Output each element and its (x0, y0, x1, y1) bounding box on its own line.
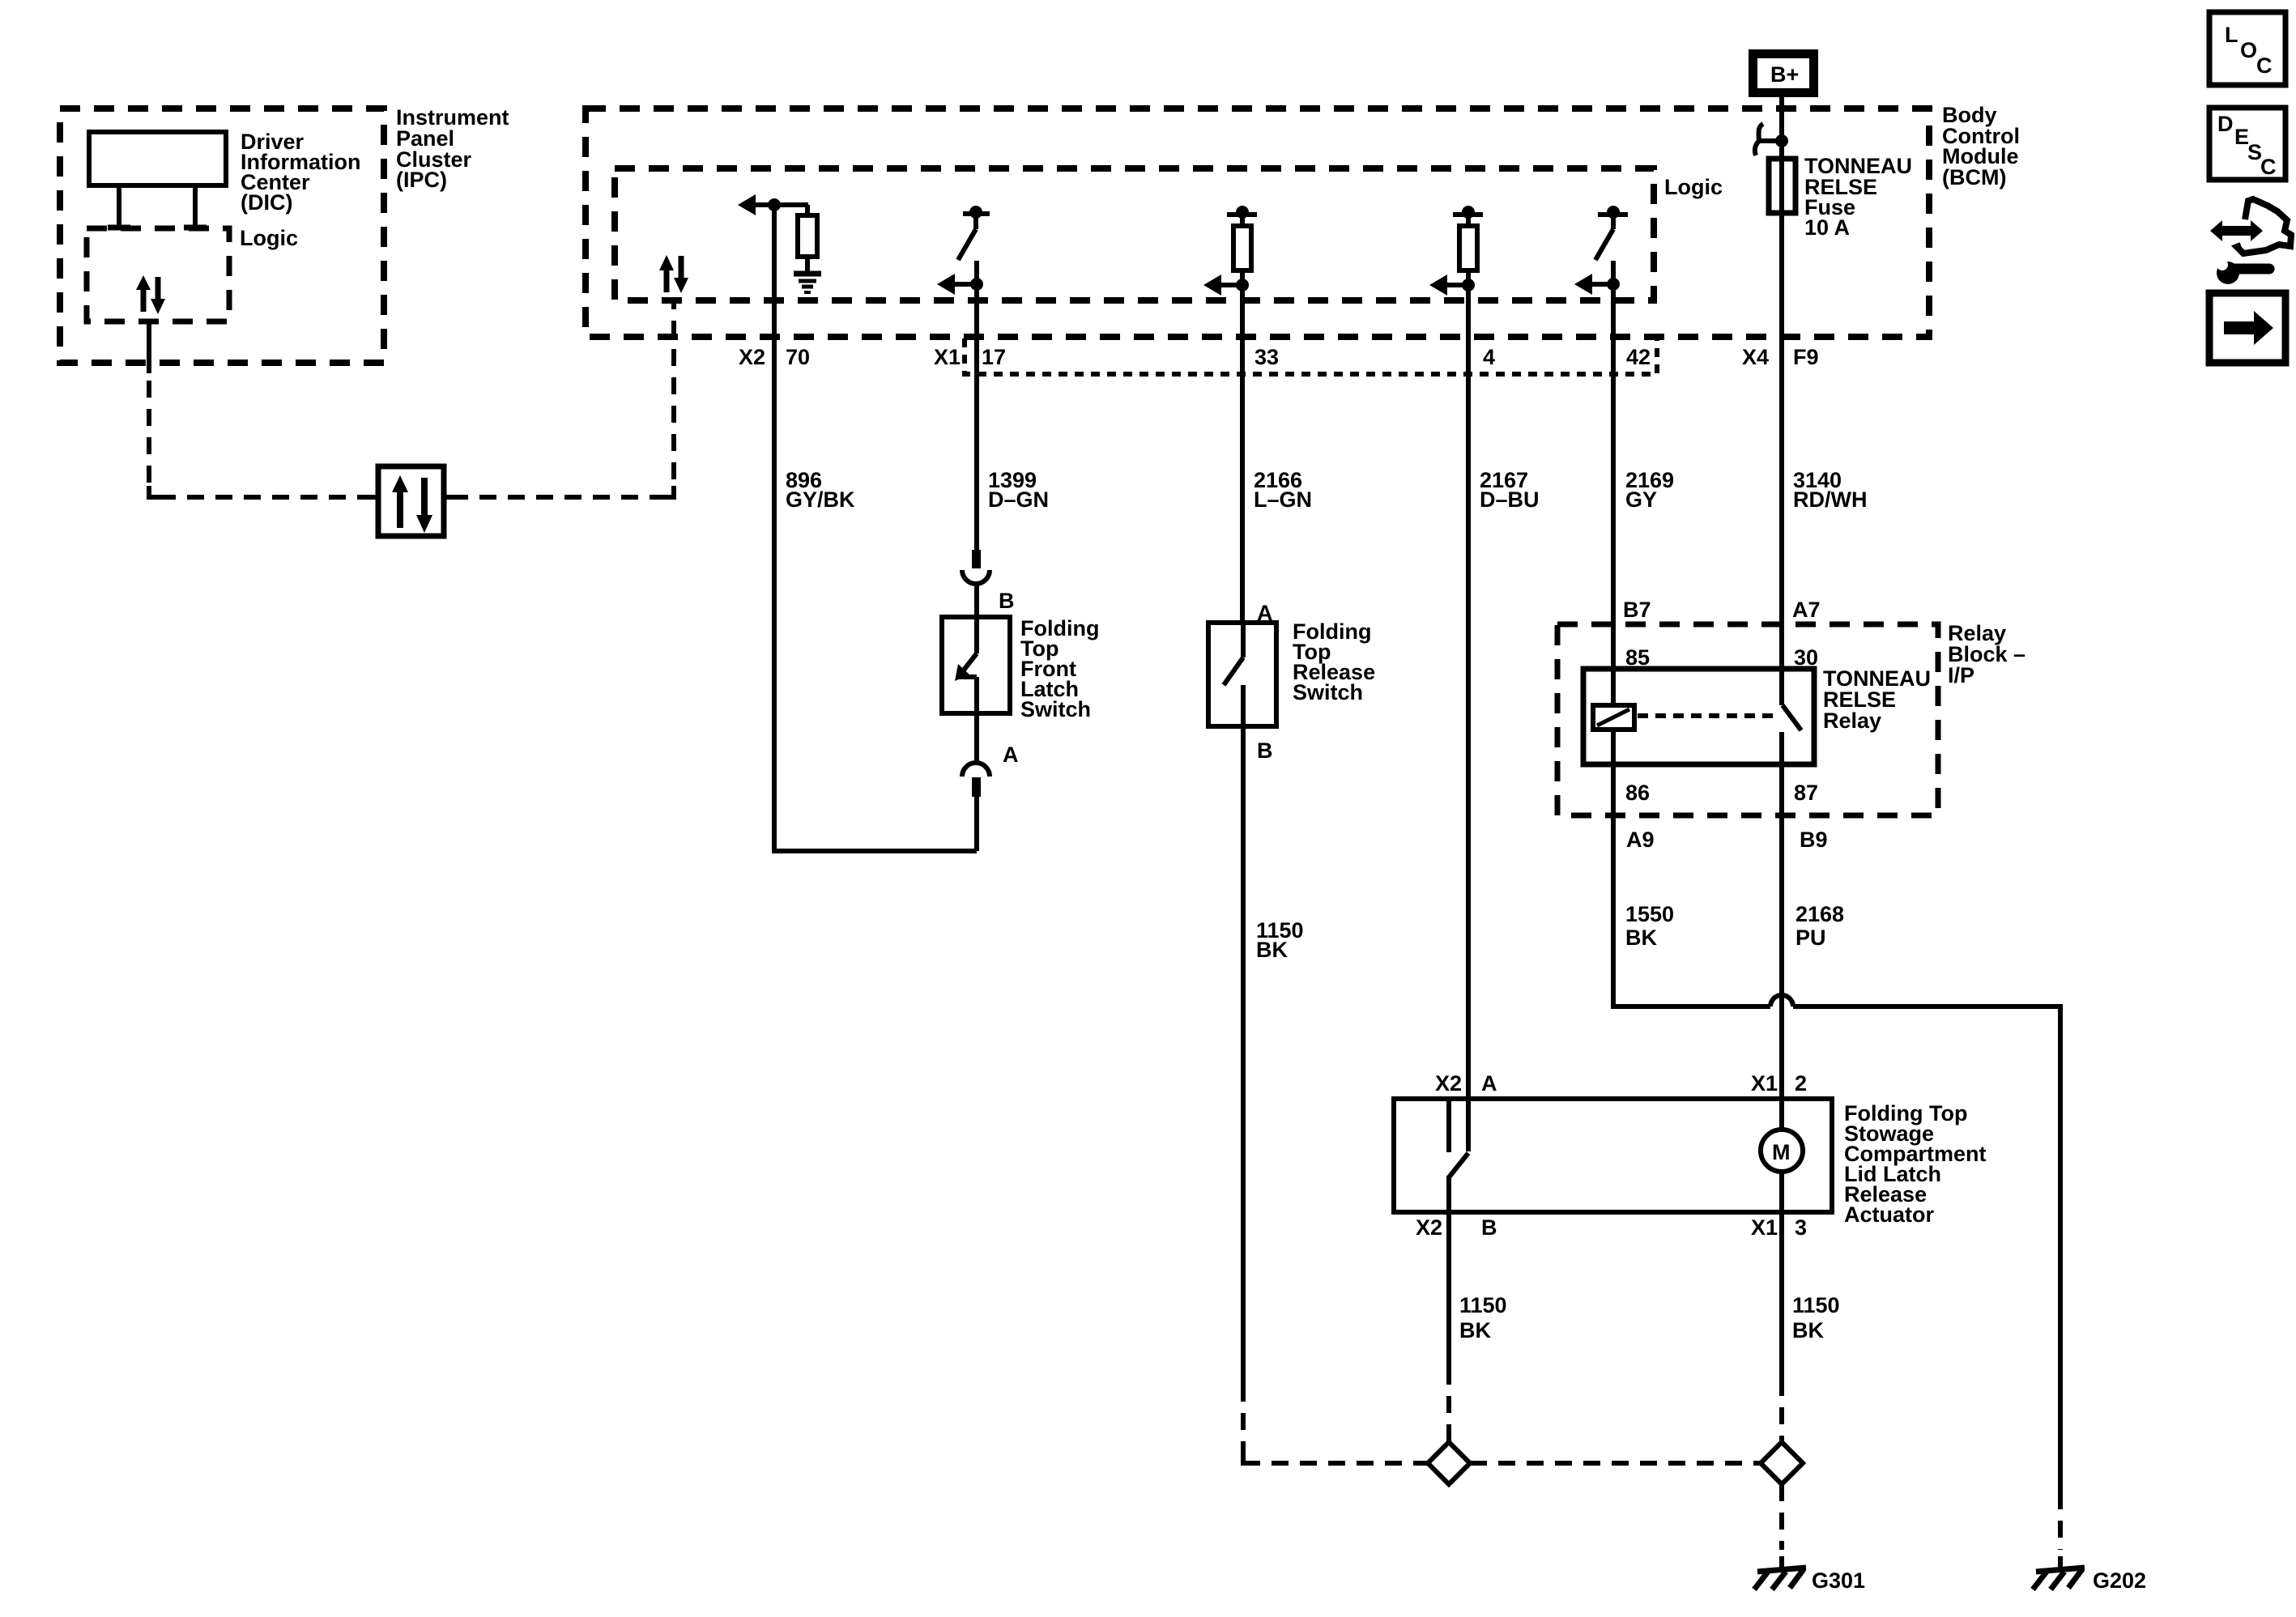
svg-text:1150: 1150 (1792, 1293, 1840, 1317)
svg-text:2168: 2168 (1795, 902, 1844, 926)
svg-text:Relay: Relay (1823, 709, 1881, 733)
svg-text:X4: X4 (1742, 345, 1769, 369)
svg-text:M: M (1772, 1140, 1791, 1164)
svg-text:X2: X2 (739, 345, 765, 369)
svg-text:2: 2 (1795, 1071, 1807, 1096)
svg-text:BK: BK (1625, 926, 1657, 950)
svg-text:Logic: Logic (1664, 175, 1723, 199)
svg-text:L: L (2225, 23, 2238, 47)
svg-text:B9: B9 (1800, 828, 1828, 852)
svg-text:A7: A7 (1792, 598, 1821, 622)
svg-text:42: 42 (1626, 345, 1651, 369)
svg-text:X1: X1 (1751, 1215, 1778, 1240)
svg-text:C: C (2256, 53, 2273, 78)
svg-text:X2: X2 (1416, 1215, 1442, 1240)
svg-text:(BCM): (BCM) (1942, 165, 2006, 189)
svg-text:3: 3 (1795, 1215, 1807, 1240)
svg-text:GY/BK: GY/BK (786, 487, 855, 512)
svg-text:33: 33 (1254, 345, 1279, 369)
svg-text:4: 4 (1483, 345, 1495, 369)
svg-text:B: B (999, 589, 1015, 613)
svg-text:RD/WH: RD/WH (1793, 487, 1867, 512)
svg-text:C: C (2260, 155, 2277, 179)
svg-text:1550: 1550 (1625, 902, 1674, 926)
svg-text:D–GN: D–GN (988, 487, 1049, 512)
svg-text:BK: BK (1459, 1318, 1491, 1343)
svg-text:B+: B+ (1770, 62, 1799, 87)
svg-text:D: D (2217, 112, 2234, 136)
svg-text:X1: X1 (934, 345, 961, 369)
svg-text:B7: B7 (1623, 598, 1651, 622)
svg-text:Switch: Switch (1293, 680, 1363, 704)
svg-text:87: 87 (1794, 781, 1818, 805)
svg-text:GY: GY (1625, 487, 1657, 512)
svg-text:D–BU: D–BU (1480, 487, 1540, 512)
svg-text:PU: PU (1795, 926, 1826, 950)
svg-text:Switch: Switch (1020, 697, 1091, 721)
svg-text:G301: G301 (1812, 1568, 1865, 1593)
svg-text:A: A (1481, 1071, 1497, 1096)
svg-text:17: 17 (982, 345, 1006, 369)
svg-text:L–GN: L–GN (1254, 487, 1312, 512)
svg-text:BK: BK (1256, 938, 1288, 962)
svg-text:70: 70 (786, 345, 810, 369)
svg-text:X1: X1 (1751, 1071, 1778, 1096)
svg-text:Logic: Logic (240, 226, 298, 250)
svg-text:A9: A9 (1626, 828, 1655, 852)
svg-text:O: O (2240, 38, 2257, 62)
svg-text:(DIC): (DIC) (241, 190, 292, 215)
svg-text:I/P: I/P (1948, 663, 1974, 687)
svg-text:(IPC): (IPC) (396, 168, 447, 192)
svg-text:1150: 1150 (1459, 1293, 1507, 1317)
svg-text:F9: F9 (1793, 345, 1819, 369)
svg-text:X2: X2 (1435, 1071, 1462, 1096)
svg-text:A: A (1003, 743, 1019, 767)
svg-text:BK: BK (1792, 1318, 1824, 1343)
svg-text:Actuator: Actuator (1844, 1202, 1934, 1227)
svg-text:10 A: 10 A (1804, 215, 1850, 240)
svg-text:G202: G202 (2093, 1568, 2146, 1593)
svg-text:B: B (1481, 1215, 1497, 1240)
svg-text:86: 86 (1625, 781, 1650, 805)
svg-text:B: B (1257, 738, 1273, 763)
